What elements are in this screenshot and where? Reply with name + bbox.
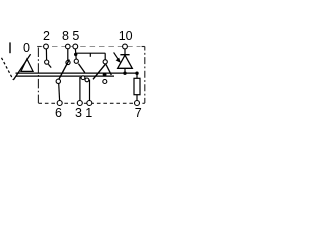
housing dashed box: right edge (144, 47, 146, 104)
resistor R1 body (134, 78, 140, 94)
wire diode to bus (124, 68, 126, 73)
terminal 2 circle (44, 44, 49, 49)
contact mid (fed by bridge) (103, 60, 107, 64)
short blade stub at contact 2 (48, 64, 51, 67)
junction dot on T5 lead (74, 53, 77, 56)
contact under T2 (45, 60, 49, 64)
svg-text:8: 8 (62, 29, 69, 43)
diode D1 cathode bar (120, 54, 129, 56)
terminal 1 circle (87, 101, 92, 106)
junction dot resistor-bus (135, 72, 138, 75)
wire T6 lead (58, 83, 61, 100)
terminal 5 circle (73, 44, 78, 49)
switch blade from bar toward contact 5 (open) (78, 64, 84, 73)
contact under T5 (74, 59, 78, 63)
pivot contact above T6 (56, 79, 60, 83)
lever dashed (rest position) (2, 58, 14, 80)
svg-text:2: 2 (43, 29, 50, 43)
diode D1 triangle (118, 55, 133, 68)
svg-text:7: 7 (135, 106, 142, 120)
housing dashed box: top edge (gray) (43, 46, 141, 48)
wire T1 lead (89, 80, 91, 101)
bridging contact b (85, 78, 89, 82)
wire bridge left drop to bus (89, 53, 91, 57)
svg-text:0: 0 (23, 41, 30, 55)
actuator bar lower line (16, 75, 115, 77)
wire bridge from T5 (75, 52, 105, 54)
switch blade 6-8 (57, 60, 69, 83)
changeover blade (A-shape right) (106, 64, 111, 75)
svg-text:10: 10 (119, 29, 133, 43)
svg-text:3: 3 (75, 106, 82, 120)
wire T3 lead (79, 78, 81, 101)
wire bridge right drop (104, 53, 106, 59)
terminal 7 circle (135, 101, 140, 106)
terminal 8 circle (66, 44, 71, 49)
lever solid (13, 54, 30, 80)
housing dashed box: left edge (37, 48, 39, 104)
svg-text:1: 1 (85, 106, 92, 120)
position-0 tick (9, 42, 11, 53)
svg-text:5: 5 (72, 29, 79, 43)
wire T10 lead (124, 49, 126, 55)
wire T8 lead (67, 49, 69, 61)
wire resistor bottom lead (136, 95, 138, 100)
changeover blade (A-shape left) (93, 64, 105, 79)
housing dashed box: bottom edge (38, 102, 144, 104)
junction dot diode-bus (123, 72, 126, 75)
wire bridging bar (79, 77, 84, 79)
indicator arrow (114, 52, 119, 59)
lever actuator triangle (21, 59, 33, 72)
bridging contact a (81, 76, 85, 80)
wire T5 lead (74, 49, 77, 59)
terminal 10 circle (123, 44, 128, 49)
terminal 6 circle (57, 101, 62, 106)
actuator bar upper line / bus (16, 72, 138, 74)
contact under T8 (66, 60, 70, 64)
wire resistor top lead (136, 73, 138, 78)
junction dot blade-bus (103, 73, 107, 77)
wire T2 lead (45, 49, 47, 60)
terminal 3 circle (77, 101, 82, 106)
pivot contact below A (103, 80, 107, 84)
svg-text:6: 6 (55, 106, 62, 120)
